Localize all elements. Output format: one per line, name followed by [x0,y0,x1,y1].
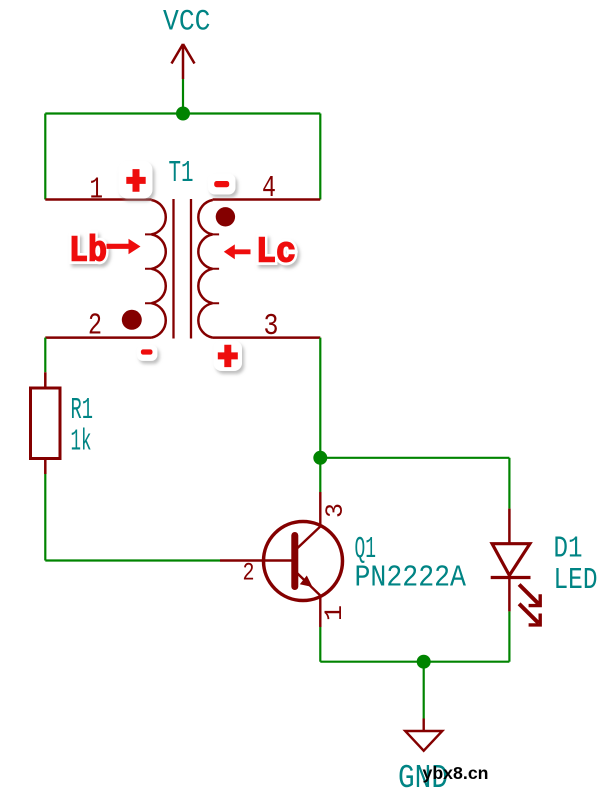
wire top rail [45,112,320,114]
annotation arrow right (Lb) [107,239,141,254]
svg-text:D1: D1 [554,532,583,567]
annotation label Lc [256,232,296,273]
wire emitter down [319,627,321,662]
wire VCC drop [182,79,184,114]
svg-text:T1: T1 [169,156,194,191]
svg-text:LED: LED [554,563,598,598]
svg-text:2: 2 [243,559,255,588]
annotation label Lb [69,231,107,272]
wire pin2 to R1 [44,338,46,373]
annotation minus bottom-left [137,345,158,361]
transformer T1 core [174,199,192,339]
svg-text:R1: R1 [71,393,94,428]
annotation plus top-left [119,161,153,199]
svg-text:VCC: VCC [163,6,211,40]
node VCC junction [176,107,190,121]
annotation plus bottom-right [214,341,243,372]
svg-text:Lb: Lb [69,231,107,272]
wire R1 down [44,474,46,561]
polarity dot secondary top [216,207,235,226]
svg-text:1k: 1k [71,425,92,460]
node ground junction [417,655,431,669]
wire LED branch drop [508,458,510,509]
transformer T1 primary winding Lb [45,200,165,338]
ground symbol [405,719,442,751]
transistor Q1 [220,492,343,627]
svg-text:3: 3 [321,503,350,518]
svg-text:1: 1 [320,605,349,621]
svg-text:3: 3 [264,309,279,344]
wire left drop to pin 1 [44,114,46,200]
wire base run [45,559,220,561]
wire pin3 drop to collector [319,338,321,492]
wire LED bottom drop [508,611,510,661]
wire right drop to pin 4 [319,114,321,200]
wire ground stub [423,662,425,719]
wire bottom rail [320,661,509,663]
polarity dot primary bottom [122,310,142,330]
wire junction to LED branch [320,457,509,459]
resistor R1 [31,372,61,474]
svg-text:1: 1 [90,173,104,208]
svg-text:4: 4 [262,171,276,206]
annotation minus top-right [208,174,236,195]
svg-text:2: 2 [88,309,102,344]
annotation arrow left (Lc) [224,244,251,259]
svg-text:ybx8.cn: ybx8.cn [423,763,489,783]
transformer T1 secondary winding Lc [198,200,320,338]
node collector junction [313,451,327,465]
diode D1 LED [491,509,541,625]
power symbol VCC arrow [172,44,195,79]
svg-text:PN2222A: PN2222A [355,561,467,596]
svg-text:Lc: Lc [256,232,296,273]
